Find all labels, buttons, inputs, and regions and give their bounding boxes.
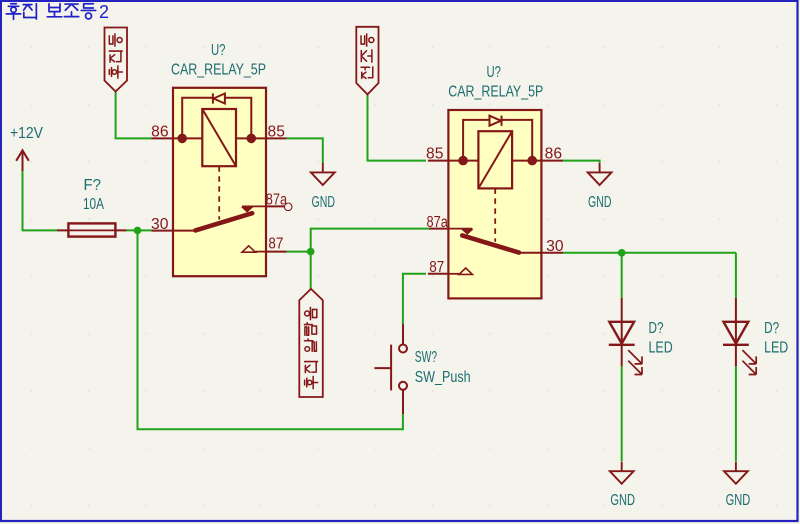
wire relay2 pin86 to GND [563, 161, 600, 163]
wire flag1 to relay1 pin86 [116, 92, 152, 139]
svg-text:U?: U? [487, 64, 502, 81]
svg-text:LED: LED [764, 340, 788, 357]
fuse F? 10A [57, 223, 127, 236]
flag label 전조등 [356, 27, 378, 95]
svg-text:85: 85 [268, 123, 285, 140]
sheet title 후진 보조등 2 [6, 4, 95, 19]
svg-text:GND: GND [610, 492, 635, 509]
power symbol +12V [16, 150, 29, 171]
svg-text:F?: F? [84, 177, 102, 194]
svg-text:D?: D? [764, 320, 779, 337]
svg-text:86: 86 [545, 146, 562, 163]
svg-text:87: 87 [429, 259, 444, 276]
wire +12V down to fuse [23, 171, 58, 230]
ground symbol GND3 (LED1) [610, 462, 634, 484]
ground symbol GND4 (LED2) [724, 462, 748, 484]
wire LED1 to GND [621, 366, 623, 461]
wire relay1 pin85 to GND [287, 138, 323, 163]
wire flag2 to relay2 pin85 [368, 94, 427, 160]
svg-text:SW_Push: SW_Push [415, 369, 471, 386]
svg-text:30: 30 [546, 238, 564, 255]
LED D? (left) [609, 298, 642, 375]
svg-text:LED: LED [649, 340, 673, 357]
wire relay2 pin87 to switch [403, 274, 426, 324]
svg-text:GND: GND [312, 194, 336, 211]
svg-text:87: 87 [268, 235, 283, 252]
LED D? (right) [723, 298, 756, 375]
junction LED branch [618, 249, 626, 257]
svg-text:U?: U? [211, 42, 226, 59]
junction fuse/relay30/bottom [134, 227, 142, 235]
svg-text:SW?: SW? [415, 349, 438, 366]
svg-text:87a: 87a [427, 214, 449, 231]
svg-text:D?: D? [649, 320, 664, 337]
wire fuse to relay1 pin30 [127, 229, 152, 231]
svg-text:GND: GND [588, 194, 612, 211]
wire relay2 pin30 to LEDs [563, 253, 736, 298]
svg-text:86: 86 [151, 123, 168, 140]
pin 87a unconnected circle [284, 203, 292, 211]
wire relay1 pin87 node [287, 229, 431, 289]
junction relay1-87 node [307, 248, 315, 256]
svg-text:CAR_RELAY_5P: CAR_RELAY_5P [171, 61, 266, 78]
svg-text:+12V: +12V [10, 125, 44, 142]
flag label 후진 알람음 [299, 289, 323, 397]
wire bottom loop junction to switch [138, 230, 403, 429]
switch SW? SW_Push [374, 324, 407, 414]
ground symbol GND1 (relay1 85) [311, 163, 335, 185]
wire LED2 to GND [735, 366, 737, 461]
ground symbol GND2 (relay2 86) [588, 163, 612, 185]
svg-text:CAR_RELAY_5P: CAR_RELAY_5P [448, 84, 543, 101]
svg-text:30: 30 [151, 216, 169, 233]
relay U? CAR_RELAY_5P (right, mirrored) [428, 110, 563, 298]
flag label 후진등 [105, 28, 128, 92]
svg-text:GND: GND [726, 492, 751, 509]
svg-text:2: 2 [99, 2, 109, 22]
relay U? CAR_RELAY_5P (left) [152, 88, 287, 276]
svg-text:85: 85 [426, 146, 443, 163]
svg-text:10A: 10A [83, 196, 104, 213]
svg-text:87a: 87a [266, 192, 288, 209]
